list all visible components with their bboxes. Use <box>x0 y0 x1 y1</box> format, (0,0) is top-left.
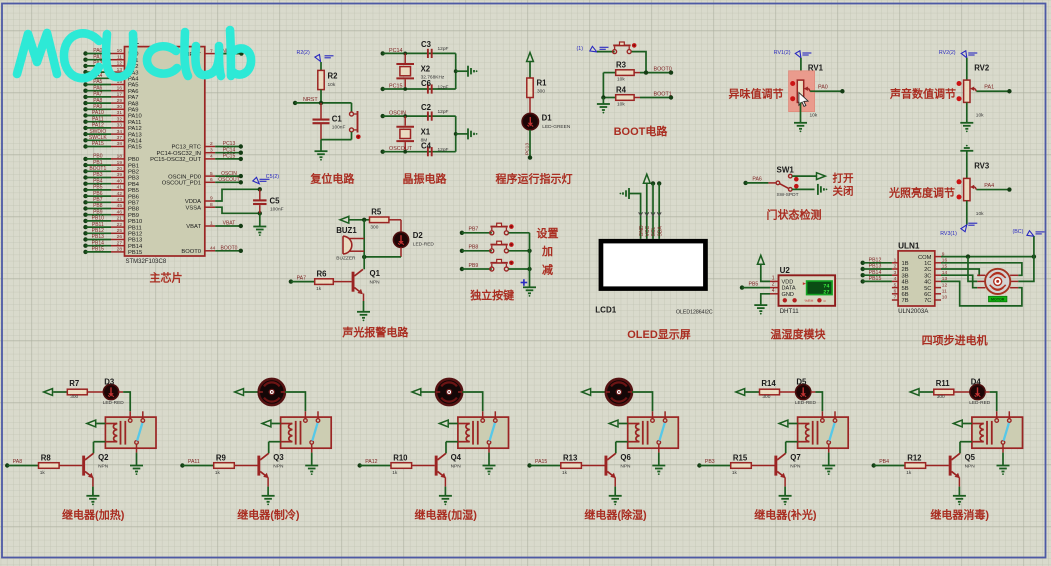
svg-text:Q1: Q1 <box>370 269 381 278</box>
svg-text:1k: 1k <box>392 470 398 476</box>
wire Q2 collector to coil <box>93 442 95 454</box>
push button (reset) <box>350 103 361 140</box>
wire power to fan <box>591 391 606 393</box>
svg-text:继电器(加热): 继电器(加热) <box>62 508 125 522</box>
ground (relay) <box>305 466 318 476</box>
ground (Q6) <box>609 496 622 506</box>
wire R10 to Q4 base <box>412 465 435 467</box>
wire 1C to motor <box>941 263 1022 276</box>
wire PB5 to DATA <box>742 287 770 289</box>
svg-text:PB6: PB6 <box>93 191 103 197</box>
svg-text:PB7: PB7 <box>128 201 139 207</box>
rail stub 关闭 <box>818 184 827 195</box>
junction common PB8 <box>527 249 531 253</box>
ground (relay) <box>652 466 665 476</box>
MCU pin 16 PA6 / net PA6 <box>83 85 138 95</box>
relay (for 继电器消毒)) <box>972 411 1023 452</box>
svg-text:R14: R14 <box>761 379 776 388</box>
node PA4 terminal <box>984 183 1011 192</box>
svg-text:40: 40 <box>117 178 123 184</box>
power arrow (fan) <box>235 389 244 396</box>
svg-text:3: 3 <box>210 147 213 153</box>
svg-text:PA11: PA11 <box>188 459 200 465</box>
resistor R10 1k <box>391 453 412 476</box>
ground (Q7) <box>779 496 792 506</box>
svg-text:BOOT0: BOOT0 <box>654 67 672 73</box>
svg-text:PA6: PA6 <box>93 85 102 91</box>
MCU pin 31 PA10 / net PA10 <box>83 110 141 120</box>
svg-text:PA1: PA1 <box>93 54 102 60</box>
svg-text:19: 19 <box>117 160 123 166</box>
node PC13 terminal <box>528 155 532 159</box>
svg-text:RV1(2): RV1(2) <box>774 50 791 56</box>
wire C5 to ground <box>259 213 261 226</box>
node OSCOUT <box>381 146 413 154</box>
svg-text:o: o <box>824 299 826 303</box>
fan motor <box>606 379 632 405</box>
svg-text:PB1: PB1 <box>128 163 139 169</box>
svg-text:11: 11 <box>117 54 122 60</box>
LED D4 LED-RED <box>969 378 991 407</box>
svg-text:7: 7 <box>210 48 213 54</box>
svg-text:PB15: PB15 <box>92 247 104 253</box>
svg-text:SW-SPDT: SW-SPDT <box>777 192 799 198</box>
wire coil power <box>272 423 281 425</box>
svg-text:6: 6 <box>894 289 897 295</box>
MCU pin 43 PB7 / net PB7 <box>83 197 139 207</box>
wire Q3 collector to coil <box>268 442 270 454</box>
MCU pin 32 PA11 / net PA11 <box>83 116 141 126</box>
svg-text:4B: 4B <box>902 280 909 286</box>
sensor U2 DHT11 <box>770 266 835 315</box>
node PA15 terminal <box>527 459 547 467</box>
IC U1 STM32F103C8 body <box>125 37 205 265</box>
svg-text:PB13: PB13 <box>128 238 142 244</box>
wire R8 to Q2 base <box>59 465 82 467</box>
junction at C1 top <box>319 101 323 105</box>
svg-text:2: 2 <box>894 264 897 270</box>
wire R7 to D3 <box>87 391 103 393</box>
svg-text:PA12: PA12 <box>365 459 377 465</box>
svg-text:VDDA: VDDA <box>185 199 201 205</box>
svg-text:28: 28 <box>117 247 123 253</box>
svg-text:10k: 10k <box>617 77 625 83</box>
relay (for 继电器(除湿)) <box>628 411 679 452</box>
svg-text:46: 46 <box>117 209 123 215</box>
svg-text:PA15: PA15 <box>535 459 547 465</box>
capacitor C1 100nF <box>313 103 346 140</box>
ULN pin 4 4B / net PB15 <box>861 276 909 286</box>
power arrow (relay coil) <box>779 420 788 427</box>
svg-text:PB6: PB6 <box>128 194 139 200</box>
wire VSSA to C5 bottom node <box>215 207 260 213</box>
wire button to common <box>508 250 529 252</box>
svg-text:7B: 7B <box>902 298 909 304</box>
svg-text:4C: 4C <box>924 280 931 286</box>
svg-text:PA4: PA4 <box>128 77 139 83</box>
svg-text:PA11: PA11 <box>128 120 141 126</box>
svg-text:PB13: PB13 <box>869 264 882 270</box>
svg-text:OSCOUT_PD1: OSCOUT_PD1 <box>162 181 201 187</box>
svg-text:PB11: PB11 <box>92 222 104 228</box>
capacitor C4 12pF <box>421 142 449 157</box>
wire OSCOUT row <box>383 151 456 153</box>
capacitor C6 12pF <box>421 79 449 94</box>
svg-text:PB3: PB3 <box>705 459 715 465</box>
node OSCIN <box>381 111 407 119</box>
ULN pin 2 2B / net PB13 <box>861 264 909 274</box>
svg-text:37: 37 <box>117 135 123 141</box>
svg-text:3: 3 <box>894 270 897 276</box>
MCU pin 21 PB10 / net PB10 <box>83 216 142 226</box>
svg-text:GND: GND <box>782 292 794 298</box>
svg-text:R7: R7 <box>69 379 79 388</box>
svg-text:DATA: DATA <box>782 286 796 292</box>
svg-text:R10: R10 <box>393 453 408 462</box>
ULN pin 16 1C <box>924 258 947 268</box>
svg-text:PB0: PB0 <box>93 154 103 160</box>
svg-text:10: 10 <box>117 48 123 54</box>
svg-text:12pF: 12pF <box>438 85 449 91</box>
wire power to RV2 <box>966 58 968 80</box>
wire R5 to D2 <box>389 220 401 233</box>
svg-text:PA13: PA13 <box>128 132 142 138</box>
svg-text:31: 31 <box>117 110 123 116</box>
svg-text:SWCLK: SWCLK <box>89 135 107 141</box>
svg-text:PA6: PA6 <box>128 89 139 95</box>
wire Q5 collector to coil <box>959 442 961 454</box>
svg-text:复位电路: 复位电路 <box>309 171 355 185</box>
MCU pin 41 PB5 / net PB5 <box>83 185 139 195</box>
svg-text:PA0: PA0 <box>93 48 102 54</box>
MCU pin 45 PB8 / net PB8 <box>83 203 139 213</box>
pin mark VCC <box>645 212 649 215</box>
svg-text:29: 29 <box>117 98 123 104</box>
wire Q6 collector to coil <box>615 442 617 454</box>
svg-text:Q3: Q3 <box>273 453 284 462</box>
svg-text:VBAT: VBAT <box>186 224 201 230</box>
resistor R2 10k <box>318 70 338 89</box>
svg-text:17: 17 <box>117 92 123 98</box>
svg-text:100nF: 100nF <box>332 125 346 131</box>
svg-text:R11: R11 <box>936 379 951 388</box>
wire D5 to relay <box>811 392 823 411</box>
wire Q1 collector <box>363 257 365 269</box>
push button (减) <box>490 259 514 271</box>
svg-text:PA5: PA5 <box>128 83 139 89</box>
wire Q7 emitter to ground <box>784 477 786 495</box>
svg-text:Q2: Q2 <box>98 453 109 462</box>
svg-text:C5: C5 <box>270 197 281 206</box>
svg-text:PB13: PB13 <box>92 234 104 240</box>
transistor Q6 NPN <box>605 453 632 478</box>
svg-text:BOOT电路: BOOT电路 <box>614 124 669 138</box>
svg-text:5B: 5B <box>902 286 909 292</box>
node PC14 <box>381 48 403 56</box>
svg-text:PA0: PA0 <box>818 85 828 91</box>
svg-text:10k: 10k <box>810 113 818 119</box>
wire R2 to NRST node <box>320 90 322 103</box>
wire PA11 to R9 <box>182 465 213 467</box>
ULN pin 7 7B <box>892 295 909 305</box>
svg-text:32: 32 <box>117 116 123 122</box>
ULN pin 1 1B / net PB12 <box>861 258 909 268</box>
svg-text:22: 22 <box>117 222 123 228</box>
resistor R15 1k <box>731 453 752 476</box>
wire Q2 emitter to ground <box>92 477 94 495</box>
wire alarm vertical <box>363 220 365 257</box>
svg-text:41: 41 <box>117 185 123 191</box>
svg-text:Q6: Q6 <box>620 453 631 462</box>
wire COM rail <box>941 256 1034 258</box>
power arrow (D3) <box>44 389 53 396</box>
svg-text:NPN: NPN <box>370 279 381 285</box>
svg-text:PB15: PB15 <box>869 276 882 282</box>
svg-text:PB12: PB12 <box>128 232 142 238</box>
motor nameplate <box>989 296 1007 302</box>
LED D3 LED-RED <box>103 378 125 407</box>
power arrow (fan) <box>582 389 591 396</box>
MCU pin 14 PA4 / net PA4 <box>83 73 139 83</box>
svg-text:LED-RED: LED-RED <box>795 400 817 406</box>
IC ULN1 ULN2003A body <box>898 241 935 315</box>
wire R11 to D4 <box>954 391 970 393</box>
svg-text:PC14-OSC32_IN: PC14-OSC32_IN <box>157 151 201 157</box>
LED D1 LED-GREEN <box>522 113 571 129</box>
wire coil to collector <box>94 441 106 443</box>
MCU pin 3 PC14-OSC32_IN / net PC14 <box>157 147 243 157</box>
MCU pin 26 PB13 / net PB13 <box>83 234 142 244</box>
svg-text:D5: D5 <box>796 378 807 387</box>
junction BOOT0 <box>644 70 648 74</box>
wire R6 to Q1 base <box>333 281 351 283</box>
MCU pin 1 VBAT / net VBAT <box>186 221 243 231</box>
capacitor C3 12pF <box>421 40 449 58</box>
svg-text:继电器(除湿): 继电器(除湿) <box>584 508 647 522</box>
svg-text:NPN: NPN <box>965 463 976 469</box>
svg-text:NPN: NPN <box>790 463 801 469</box>
stepper motor M1 <box>977 269 1018 294</box>
svg-text:DHT11: DHT11 <box>780 308 800 315</box>
svg-text:6B: 6B <box>902 292 909 298</box>
power flag C5(2) <box>253 174 279 184</box>
svg-text:PB7: PB7 <box>469 227 479 233</box>
svg-text:BOOT0: BOOT0 <box>181 249 201 255</box>
svg-text:8: 8 <box>210 202 213 208</box>
power arrow 打开 <box>817 173 826 180</box>
svg-text:10k: 10k <box>328 82 336 88</box>
svg-text:R6: R6 <box>317 270 328 279</box>
wire Q4 emitter to ground <box>444 477 446 495</box>
svg-text:VBAT: VBAT <box>223 221 236 227</box>
svg-text:PA6: PA6 <box>752 177 762 183</box>
svg-text:PA8: PA8 <box>93 98 102 104</box>
svg-text:6C: 6C <box>924 292 931 298</box>
wire right vertical <box>455 53 457 89</box>
svg-text:BOOT0: BOOT0 <box>221 246 238 252</box>
svg-text:PA15: PA15 <box>92 141 104 147</box>
svg-text:PC14: PC14 <box>223 147 236 153</box>
wire PB3 to R15 <box>699 465 730 467</box>
svg-text:门状态检测: 门状态检测 <box>767 208 822 222</box>
wire R13 to Q6 base <box>581 465 604 467</box>
ground (Q4) <box>439 496 452 506</box>
svg-text:R4: R4 <box>616 85 627 94</box>
svg-text:(BC): (BC) <box>1013 229 1024 235</box>
svg-text:1k: 1k <box>316 286 322 292</box>
svg-text:%RH: %RH <box>805 299 814 303</box>
svg-text:LED-RED: LED-RED <box>969 400 991 406</box>
MCU pin 22 PB11 / net PB11 <box>83 222 141 232</box>
svg-text:打开: 打开 <box>833 171 854 184</box>
wire relay pole to ground <box>1002 453 1004 465</box>
MCU pin 30 PA9 / net PA9 <box>83 104 138 114</box>
ground (relay) <box>997 466 1010 476</box>
ULN pin 6 6B <box>892 289 909 299</box>
svg-text:PA12: PA12 <box>92 123 104 129</box>
wire PA8 to R8 <box>7 465 38 467</box>
wire SW1 NO to open flag <box>792 175 816 177</box>
svg-text:PB14: PB14 <box>869 270 882 276</box>
rail stub above RV3 <box>960 145 973 151</box>
svg-text:继电器(制冷): 继电器(制冷) <box>237 508 300 522</box>
power arrow (D1 anode) <box>527 53 534 62</box>
svg-text:7: 7 <box>894 295 897 301</box>
svg-text:PC13: PC13 <box>524 143 530 155</box>
svg-text:11: 11 <box>942 289 947 295</box>
svg-text:加: 加 <box>541 244 553 258</box>
svg-text:LED-RED: LED-RED <box>103 400 125 406</box>
svg-text:3C: 3C <box>924 273 931 279</box>
power flag R2(2) <box>297 50 334 62</box>
MCU pin 12 PA2 / net PA2 <box>83 61 138 71</box>
MCU pin 19 PB1 / net PB1 <box>83 160 139 170</box>
origin marker <box>521 279 528 286</box>
svg-text:继电器(补光): 继电器(补光) <box>754 508 817 522</box>
power flag (1) <box>577 46 609 52</box>
svg-text:12pF: 12pF <box>438 46 449 52</box>
resistor R8 1k <box>39 453 60 476</box>
wire PA15 to R13 <box>530 465 561 467</box>
wire power to button <box>597 51 615 53</box>
MCU pin 27 PB14 / net PB14 <box>83 240 143 250</box>
wire wiper to PA1 <box>976 90 1009 92</box>
svg-text:PB8: PB8 <box>93 203 103 209</box>
svg-text:4: 4 <box>894 276 897 282</box>
potentiometer RV1 10k <box>790 63 823 118</box>
svg-text:独立按键: 独立按键 <box>469 288 515 302</box>
wire relay pole to ground <box>828 453 830 465</box>
MCU pin 17 PA7 / net PA7 <box>83 92 138 102</box>
svg-text:R2: R2 <box>328 72 339 81</box>
power arrow (alarm) <box>340 216 349 223</box>
svg-text:4: 4 <box>210 154 213 160</box>
svg-text:RV2: RV2 <box>974 63 990 72</box>
svg-text:PA5: PA5 <box>93 79 102 85</box>
svg-text:PB9: PB9 <box>128 213 139 219</box>
svg-text:COM: COM <box>918 255 932 261</box>
ground (BOOT divider) <box>597 104 610 114</box>
ground (Q5) <box>953 496 966 506</box>
svg-text:减: 减 <box>542 262 553 276</box>
node PA11 terminal <box>180 459 200 467</box>
push button (BOOT) <box>613 42 637 54</box>
svg-text:D1: D1 <box>542 114 553 123</box>
transistor Q7 NPN <box>774 453 801 478</box>
wire PB4 to R12 <box>874 465 905 467</box>
svg-text:9: 9 <box>210 196 213 202</box>
wire rail to RV3 <box>966 151 968 179</box>
svg-text:PA9: PA9 <box>128 108 139 114</box>
svg-text:C4: C4 <box>421 142 432 151</box>
node NRST <box>293 97 318 105</box>
wire D1 to PC13 node <box>524 130 530 158</box>
junction right <box>454 69 458 73</box>
svg-text:PB15: PB15 <box>128 250 142 256</box>
resistor R14 300 <box>760 379 780 400</box>
svg-text:NPN: NPN <box>451 463 462 469</box>
svg-text:PB0: PB0 <box>128 157 139 163</box>
svg-text:39: 39 <box>117 172 123 178</box>
wire Q5 emitter to ground <box>958 477 960 495</box>
wire coil power <box>96 423 105 425</box>
svg-text:27: 27 <box>117 240 123 246</box>
svg-text:R2(2): R2(2) <box>297 50 310 56</box>
wire relay pole to ground <box>136 453 138 465</box>
svg-text:NPN: NPN <box>98 463 109 469</box>
svg-text:PB1: PB1 <box>93 160 103 166</box>
svg-text:PB12: PB12 <box>869 258 882 264</box>
svg-text:100nF: 100nF <box>270 207 284 213</box>
node PA8 terminal <box>5 459 22 467</box>
wire coil power <box>963 423 972 425</box>
resistor R3 10k <box>616 61 634 83</box>
svg-text:晶振电路: 晶振电路 <box>403 171 448 185</box>
svg-text:GND: GND <box>639 225 645 237</box>
relay (for 继电器(制冷)) <box>281 411 332 452</box>
MCU pin 38 PA15 / net PA15 <box>83 141 141 151</box>
svg-text:21: 21 <box>117 216 123 222</box>
pin mark GND <box>639 212 643 215</box>
MCU pin 18 PB0 / net PB0 <box>83 154 139 164</box>
svg-text:OSCIN: OSCIN <box>221 171 237 177</box>
power arrow (relay coil) <box>953 420 962 427</box>
resistor R5 300 <box>370 208 389 231</box>
wire button to common <box>508 232 529 234</box>
svg-text:43: 43 <box>117 197 123 203</box>
crystal X2 32.768KHz <box>396 53 445 89</box>
capacitor C5 100nF <box>253 189 284 213</box>
ground (relay) <box>822 466 835 476</box>
svg-text:PA10: PA10 <box>92 110 104 116</box>
svg-text:PA8: PA8 <box>128 101 139 107</box>
svg-text:BUZZER: BUZZER <box>336 256 356 262</box>
svg-text:3B: 3B <box>902 273 909 279</box>
wire SCL pin <box>652 183 654 239</box>
MCU pin 10 PA0 / net PA0 <box>83 48 138 58</box>
wire 2C to motor <box>941 269 979 275</box>
wire power to R7 <box>53 391 67 393</box>
wire R4 to BOOT1 <box>634 97 671 99</box>
node C5 bottom junction <box>258 211 262 215</box>
svg-text:RV1: RV1 <box>808 63 824 72</box>
wire Q3 emitter to ground <box>267 477 269 495</box>
power flag RV1(2) <box>774 50 812 58</box>
MCUclub logo <box>17 30 251 78</box>
svg-text:PB5: PB5 <box>749 282 759 288</box>
svg-text:26: 26 <box>117 234 123 240</box>
transistor Q1 NPN <box>352 269 381 294</box>
